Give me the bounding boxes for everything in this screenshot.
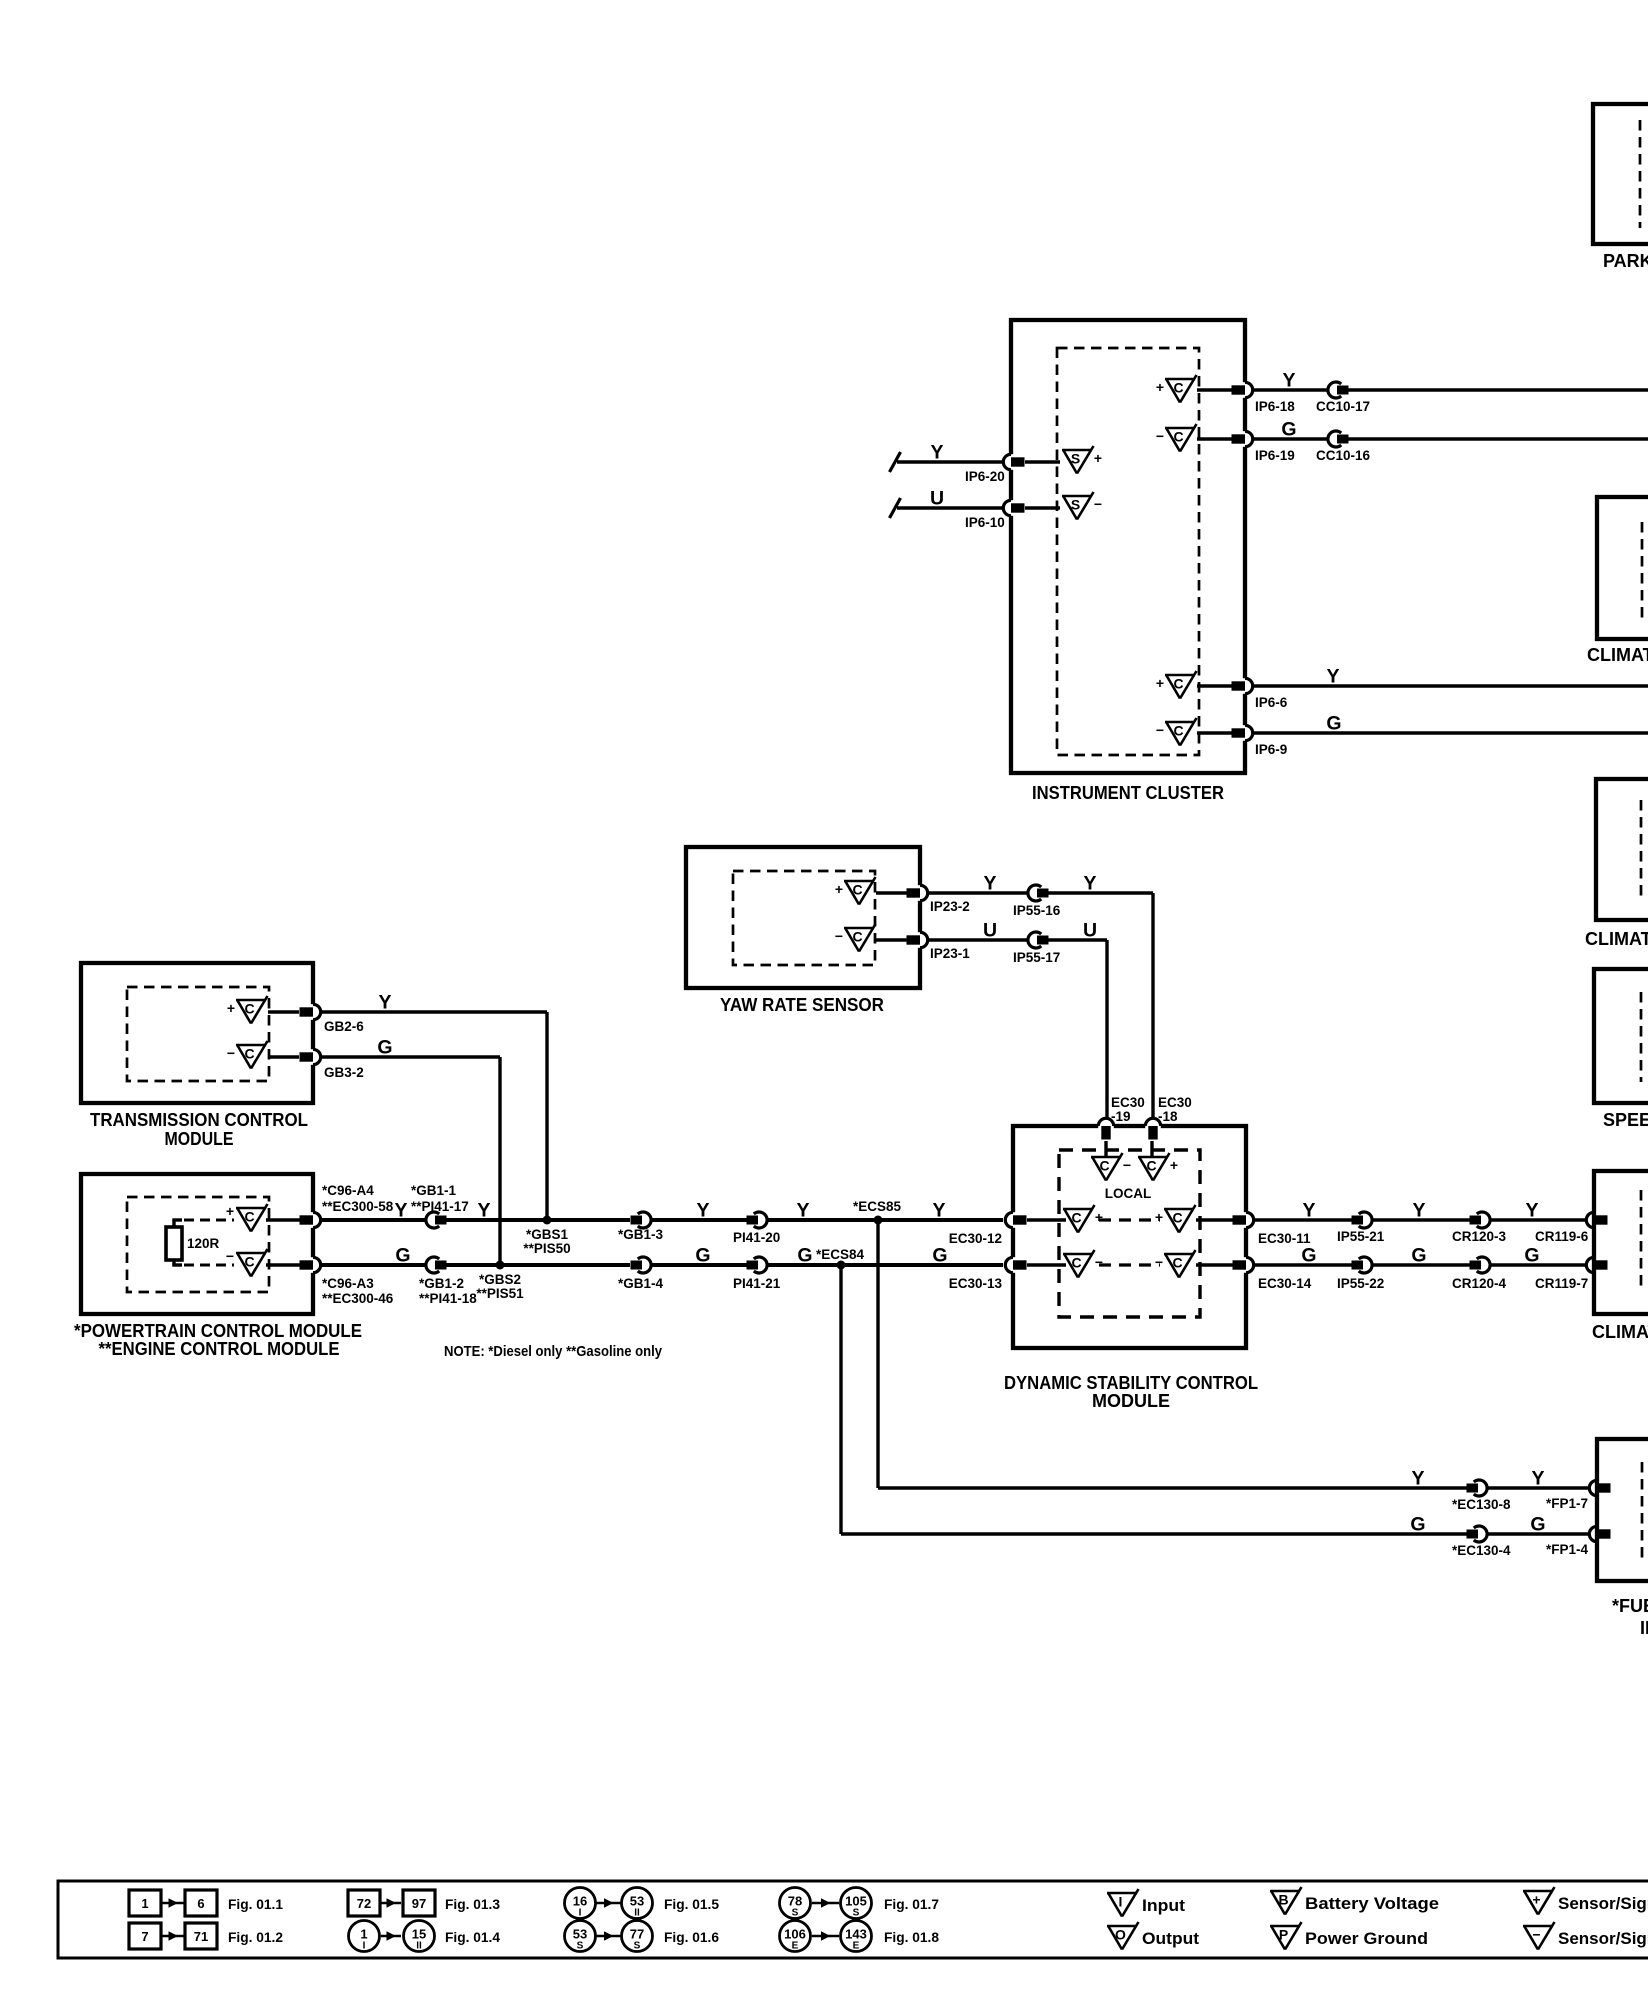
svg-text:G: G xyxy=(797,1245,812,1267)
connector PI41-20 xyxy=(754,1212,767,1228)
svg-text:G: G xyxy=(1411,1245,1426,1267)
svg-text:Y: Y xyxy=(1531,1468,1544,1490)
svg-text:C: C xyxy=(244,1001,254,1017)
svg-text:Y: Y xyxy=(1412,1200,1425,1222)
svg-text:*FUEL PU: *FUEL PU xyxy=(1612,1596,1648,1616)
junction *ECS84 xyxy=(837,1261,846,1270)
svg-text:C: C xyxy=(1071,1255,1081,1271)
svg-text:+: + xyxy=(1170,1157,1178,1173)
pin EC30-12 xyxy=(1010,1212,1015,1228)
connector *GB1-4 xyxy=(638,1257,651,1273)
wire Y from IP55-16 down to EC30-18 xyxy=(1049,891,1154,894)
svg-text:IP55-21: IP55-21 xyxy=(1337,1229,1385,1244)
wire C- triangle to pin IP23-1 xyxy=(876,938,907,941)
svg-text:97: 97 xyxy=(412,1896,426,1911)
connector triangle C- (EC30-14) xyxy=(1164,1253,1194,1256)
svg-text:Y: Y xyxy=(477,1200,490,1222)
legend power ground symbol xyxy=(1270,1925,1300,1928)
svg-text:C: C xyxy=(1173,380,1183,396)
svg-text:U: U xyxy=(983,920,997,942)
wire C+ triangle to pin GB2-6 xyxy=(268,1010,299,1013)
speed module box (clipped right) xyxy=(1594,969,1648,1103)
connector IP55-21 xyxy=(1359,1212,1372,1228)
svg-text:−: − xyxy=(1156,428,1164,444)
svg-text:*GB1-1: *GB1-1 xyxy=(411,1183,457,1198)
svg-text:*GB1-2: *GB1-2 xyxy=(419,1276,464,1291)
climate module box 1 (clipped right) xyxy=(1597,497,1648,639)
wire C- triangle to pin *C96-A3 xyxy=(266,1263,301,1266)
connector triangle C- (IP6-9) xyxy=(1165,721,1195,724)
connector triangle C- (IP23-1) xyxy=(844,927,874,930)
svg-text:C: C xyxy=(1173,723,1183,739)
svg-text:IP6-9: IP6-9 xyxy=(1255,742,1287,757)
svg-text:C: C xyxy=(244,1254,254,1270)
yaw rate sensor inner dashed box xyxy=(733,871,875,965)
svg-text:C: C xyxy=(1071,1210,1081,1226)
wire G CR120-4 to CR119-7 xyxy=(1490,1263,1586,1266)
svg-text:*C96-A4: *C96-A4 xyxy=(322,1183,374,1198)
wire triangle to pin EC30-14 xyxy=(1196,1263,1233,1266)
pin IP6-18 xyxy=(1242,382,1247,398)
wire Y from CC10-17 to right edge xyxy=(1349,388,1648,391)
powertrain/engine control module box xyxy=(81,1174,313,1314)
connector CC10-16 xyxy=(1328,431,1341,447)
svg-text:IP6-20: IP6-20 xyxy=(965,469,1005,484)
junction *GBS1 / **PIS50 xyxy=(543,1216,552,1225)
pin *FP1-7 xyxy=(1594,1480,1599,1496)
svg-text:143: 143 xyxy=(845,1927,867,1942)
svg-text:Fig. 01.2: Fig. 01.2 xyxy=(228,1929,283,1945)
svg-text:G: G xyxy=(1326,713,1341,735)
svg-text:Y: Y xyxy=(796,1200,809,1222)
svg-text:SPEED: SPEED xyxy=(1603,1110,1648,1130)
svg-text:C: C xyxy=(244,1209,254,1225)
pin EC30-14 xyxy=(1243,1257,1248,1273)
legend sensor/signal + symbol xyxy=(1523,1890,1553,1893)
svg-text:−: − xyxy=(227,1045,235,1061)
svg-text:NOTE: *Diesel only **Gasoline: NOTE: *Diesel only **Gasoline only xyxy=(444,1343,663,1360)
wire C- triangle to pin IP6-9 xyxy=(1197,731,1232,734)
svg-text:15: 15 xyxy=(412,1927,426,1942)
wire Y from IP23-2 to IP55-16 xyxy=(928,891,1028,894)
pin IP6-9 xyxy=(1242,725,1247,741)
legend fig 01.5 xyxy=(565,1888,596,1919)
dashed internal link G xyxy=(1099,1263,1160,1266)
svg-text:+: + xyxy=(1095,1209,1103,1225)
svg-text:IP6-19: IP6-19 xyxy=(1255,448,1295,463)
svg-text:CR120-4: CR120-4 xyxy=(1452,1276,1507,1291)
svg-text:IN: IN xyxy=(1640,1618,1648,1638)
connector triangle C- (IP6-19) xyxy=(1165,427,1195,430)
svg-text:72: 72 xyxy=(357,1896,371,1911)
svg-text:C: C xyxy=(244,1046,254,1062)
powertrain control module inner dashed box xyxy=(127,1197,269,1292)
svg-text:II: II xyxy=(416,1941,422,1952)
svg-text:**PIS50: **PIS50 xyxy=(523,1241,570,1256)
svg-text:*GBS2: *GBS2 xyxy=(479,1272,521,1287)
pin IP23-1 xyxy=(917,932,922,948)
legend fig 01.1 xyxy=(129,1890,161,1916)
svg-text:−: − xyxy=(1123,1157,1131,1173)
legend sensor/signal - symbol xyxy=(1523,1925,1553,1928)
connector triangle C+ (IP23-2) xyxy=(844,880,874,883)
svg-text:I: I xyxy=(363,1941,366,1952)
svg-text:C: C xyxy=(1172,1210,1182,1226)
svg-text:CLIMATE: CLIMATE xyxy=(1587,645,1648,665)
wire U from IP55-17 down to EC30-19 xyxy=(1049,938,1108,941)
svg-text:S: S xyxy=(792,1908,799,1919)
svg-text:*ECS84: *ECS84 xyxy=(816,1247,865,1262)
wire Y from IP6-18 to CC10-17 xyxy=(1253,388,1328,391)
connector *EC130-4 xyxy=(1474,1526,1487,1542)
svg-text:S: S xyxy=(577,1941,584,1952)
svg-text:+: + xyxy=(1094,450,1102,466)
connector *GB1-1 / **PI41-17 xyxy=(426,1212,439,1228)
svg-text:*EC130-4: *EC130-4 xyxy=(1452,1543,1511,1558)
svg-text:53: 53 xyxy=(573,1927,587,1942)
svg-text:G: G xyxy=(1524,1245,1539,1267)
svg-text:S: S xyxy=(634,1941,641,1952)
pin EC30-11 xyxy=(1243,1212,1248,1228)
svg-text:Y: Y xyxy=(983,873,996,895)
svg-text:E: E xyxy=(853,1941,860,1952)
connector triangle C+ (GB2-6) xyxy=(236,999,266,1002)
wire G from IP6-19 to CC10-16 xyxy=(1253,437,1328,440)
junction *GBS2 / **PIS51 xyxy=(496,1261,505,1270)
connector *EC130-8 xyxy=(1474,1480,1487,1496)
svg-text:*ECS85: *ECS85 xyxy=(853,1199,902,1214)
svg-text:*C96-A3: *C96-A3 xyxy=(322,1276,374,1291)
wire G IP55-22 to CR120-4 xyxy=(1372,1263,1470,1266)
svg-text:53: 53 xyxy=(630,1894,644,1909)
svg-text:I: I xyxy=(1119,1894,1123,1910)
dashed internal link Y xyxy=(1099,1218,1160,1221)
CAN bus G wire GB1-4 to PI41-21 xyxy=(651,1263,747,1267)
svg-text:MODULE: MODULE xyxy=(1092,1391,1170,1411)
wire Y into IP6-20 xyxy=(897,460,1003,463)
svg-text:1: 1 xyxy=(141,1896,148,1911)
svg-text:PI41-20: PI41-20 xyxy=(733,1230,780,1245)
svg-text:YAW RATE SENSOR: YAW RATE SENSOR xyxy=(720,995,884,1015)
svg-text:B: B xyxy=(1278,1892,1288,1908)
CAN bus G wire PCM to GB1-2 xyxy=(321,1263,426,1267)
connector triangle C- (EC30-13) xyxy=(1063,1253,1093,1256)
svg-text:**PI41-18: **PI41-18 xyxy=(419,1291,477,1306)
svg-text:Input: Input xyxy=(1142,1896,1185,1915)
svg-text:CR119-6: CR119-6 xyxy=(1535,1229,1589,1244)
svg-text:Fig. 01.7: Fig. 01.7 xyxy=(884,1896,939,1912)
svg-text:IP23-2: IP23-2 xyxy=(930,899,970,914)
wire Y *EC130-8 to *FP1-7 xyxy=(1487,1486,1589,1489)
connector *GB1-2 / **PI41-18 xyxy=(426,1257,439,1273)
wire IP6-10 pin to S- triangle xyxy=(1025,506,1060,509)
svg-text:TRANSMISSION CONTROL: TRANSMISSION CONTROL xyxy=(90,1110,308,1130)
svg-text:Y: Y xyxy=(1411,1468,1424,1490)
svg-text:INSTRUMENT CLUSTER: INSTRUMENT CLUSTER xyxy=(1032,783,1224,803)
svg-text:PI41-21: PI41-21 xyxy=(733,1276,781,1291)
svg-text:G: G xyxy=(1301,1245,1316,1267)
svg-text:*POWERTRAIN CONTROL MODULE: *POWERTRAIN CONTROL MODULE xyxy=(74,1321,362,1341)
pin *C96-A4 / **EC300-58 xyxy=(310,1212,315,1228)
wire G from *ECS84 down to *EC130-4 xyxy=(839,1265,842,1534)
legend fig 01.4 xyxy=(349,1921,380,1952)
legend input symbol xyxy=(1107,1892,1137,1895)
svg-text:78: 78 xyxy=(788,1894,802,1909)
wire G from GB3-2 down to junction *GBS2 xyxy=(321,1055,500,1058)
CAN bus Y wire GB1-3 to PI41-20 xyxy=(651,1218,747,1222)
svg-text:71: 71 xyxy=(194,1929,208,1944)
svg-text:EC30-14: EC30-14 xyxy=(1258,1276,1312,1291)
wire Y CR120-3 to CR119-6 xyxy=(1490,1218,1586,1221)
svg-text:7: 7 xyxy=(141,1929,148,1944)
transmission control module box xyxy=(81,963,313,1103)
pin IP6-6 xyxy=(1242,678,1247,694)
svg-text:+: + xyxy=(1155,1209,1163,1225)
svg-text:Fig. 01.4: Fig. 01.4 xyxy=(445,1929,500,1945)
svg-text:−: − xyxy=(835,928,843,944)
dashed internal wire resistor to C- triangle xyxy=(172,1263,182,1266)
svg-text:+: + xyxy=(226,1203,234,1219)
svg-text:C: C xyxy=(1173,676,1183,692)
pin IP6-20 xyxy=(1008,454,1013,470)
legend battery voltage symbol xyxy=(1270,1890,1300,1893)
wire Y from IP6-6 to right edge xyxy=(1253,684,1648,687)
svg-text:G: G xyxy=(377,1037,392,1059)
CAN bus G wire PI41-21 to EC30-13 with junction *ECS84 xyxy=(767,1263,1003,1267)
svg-text:Fig. 01.5: Fig. 01.5 xyxy=(664,1896,719,1912)
wire C+ triangle to pin *C96-A4 xyxy=(266,1218,301,1221)
wire U into IP6-10 xyxy=(897,506,1003,509)
svg-text:U: U xyxy=(1083,920,1097,942)
svg-text:MODULE: MODULE xyxy=(165,1129,234,1149)
svg-text:Sensor/Sign: Sensor/Sign xyxy=(1558,1929,1648,1948)
svg-text:S: S xyxy=(1071,497,1080,513)
connector triangle C- (GB3-2) xyxy=(236,1044,266,1047)
svg-text:G: G xyxy=(695,1245,710,1267)
connector PI41-21 xyxy=(754,1257,767,1273)
CAN bus Y wire PI41-20 to EC30-12 with junction *ECS85 xyxy=(767,1218,1003,1222)
wire U from IP23-1 to IP55-17 xyxy=(928,938,1028,941)
svg-text:Fig. 01.8: Fig. 01.8 xyxy=(884,1929,939,1945)
svg-text:Fig. 01.3: Fig. 01.3 xyxy=(445,1896,500,1912)
svg-text:Y: Y xyxy=(394,1200,407,1222)
legend bar xyxy=(58,1881,1648,1958)
connector IP55-22 xyxy=(1359,1257,1372,1273)
svg-text:Y: Y xyxy=(1282,370,1295,392)
svg-text:G: G xyxy=(1410,1514,1425,1536)
fuel module box (clipped right) xyxy=(1597,1439,1648,1581)
yaw rate sensor module box xyxy=(686,847,920,988)
svg-text:Y: Y xyxy=(696,1200,709,1222)
svg-text:Y: Y xyxy=(932,1200,945,1222)
svg-text:1: 1 xyxy=(360,1927,367,1942)
svg-text:120R: 120R xyxy=(187,1236,220,1251)
svg-text:E: E xyxy=(792,1941,799,1952)
wire Y IP55-21 to CR120-3 xyxy=(1372,1218,1470,1221)
pin *FP1-4 xyxy=(1594,1526,1599,1542)
svg-text:IP55-22: IP55-22 xyxy=(1337,1276,1384,1291)
svg-text:*FP1-7: *FP1-7 xyxy=(1546,1496,1588,1511)
svg-text:U: U xyxy=(930,488,944,510)
connector triangle C+ (EC30-11) xyxy=(1164,1208,1194,1211)
connector CC10-17 xyxy=(1328,382,1341,398)
parking module box (clipped right) xyxy=(1593,104,1648,244)
svg-text:Output: Output xyxy=(1142,1929,1199,1948)
svg-text:S: S xyxy=(1071,451,1080,467)
svg-text:*GB1-4: *GB1-4 xyxy=(618,1276,664,1291)
svg-text:16: 16 xyxy=(573,1894,587,1909)
svg-text:PARKING: PARKING xyxy=(1603,251,1648,271)
pin EC30-19 (top) xyxy=(1098,1123,1114,1128)
wire EC30-12 pin to triangle xyxy=(1027,1218,1066,1221)
resistor 120R xyxy=(172,1220,175,1228)
svg-text:G: G xyxy=(1530,1514,1545,1536)
svg-text:C: C xyxy=(1099,1158,1109,1174)
instrument cluster inner dashed box xyxy=(1057,348,1199,755)
CAN bus Y wire PCM to GB1-1 xyxy=(321,1218,426,1222)
connector IP55-17 xyxy=(1028,932,1041,948)
climate module box 2 (clipped right) xyxy=(1596,779,1648,920)
wire C+ triangle to pin IP23-2 xyxy=(876,891,907,894)
svg-text:Y: Y xyxy=(1525,1200,1538,1222)
svg-text:P: P xyxy=(1279,1927,1288,1943)
wire C- triangle to pin IP6-19 xyxy=(1197,437,1232,440)
svg-text:−: − xyxy=(226,1248,234,1264)
svg-text:−: − xyxy=(1156,722,1164,738)
svg-text:CLIMATE: CLIMATE xyxy=(1592,1322,1648,1342)
svg-text:105: 105 xyxy=(845,1894,867,1909)
svg-text:C: C xyxy=(1173,429,1183,445)
svg-text:**ENGINE CONTROL MODULE: **ENGINE CONTROL MODULE xyxy=(99,1339,340,1359)
svg-text:**PIS51: **PIS51 xyxy=(476,1286,524,1301)
wire C+ triangle to pin IP6-18 xyxy=(1197,388,1232,391)
svg-text:Y: Y xyxy=(930,442,943,464)
legend fig 01.7 xyxy=(780,1888,811,1919)
svg-text:I: I xyxy=(579,1908,582,1919)
svg-text:Y: Y xyxy=(1326,666,1339,688)
svg-text:−: − xyxy=(1094,496,1102,512)
svg-text:C: C xyxy=(1146,1158,1156,1174)
climate module box 3 (clipped right) xyxy=(1594,1171,1648,1314)
connector triangle C+ (IP6-18) xyxy=(1165,378,1195,381)
svg-text:6: 6 xyxy=(197,1896,204,1911)
svg-text:G: G xyxy=(1281,419,1296,441)
connector CR120-4 xyxy=(1477,1257,1490,1273)
svg-text:IP6-6: IP6-6 xyxy=(1255,695,1288,710)
svg-text:Y: Y xyxy=(1083,873,1096,895)
CAN bus G wire GB1-2 to GB1-4 with junction *GBS2 xyxy=(447,1263,631,1267)
pin CR119-6 xyxy=(1591,1212,1596,1228)
svg-text:*FP1-4: *FP1-4 xyxy=(1546,1542,1589,1557)
pin IP23-2 xyxy=(917,885,922,901)
wire C- triangle to pin GB3-2 xyxy=(268,1055,299,1058)
wire Y from *ECS85 down to *EC130-8 xyxy=(876,1220,879,1488)
dynamic stability control module box xyxy=(1013,1126,1246,1348)
wire G from CC10-16 to right edge xyxy=(1349,437,1648,440)
connector triangle C+ (IP6-6) xyxy=(1165,674,1195,677)
svg-text:EC30: EC30 xyxy=(1158,1095,1192,1110)
svg-text:CR120-3: CR120-3 xyxy=(1452,1229,1507,1244)
svg-text:S: S xyxy=(853,1908,860,1919)
pin EC30-18 (top) xyxy=(1145,1123,1161,1128)
svg-text:O: O xyxy=(1115,1927,1126,1943)
connector triangle C+ (EC30-12) xyxy=(1063,1208,1093,1211)
instrument cluster module box xyxy=(1011,320,1245,773)
pin IP6-19 xyxy=(1242,431,1247,447)
transmission control module inner dashed box xyxy=(127,987,269,1081)
legend fig 01.2 xyxy=(129,1923,161,1949)
svg-text:+: + xyxy=(227,1000,235,1016)
svg-text:−: − xyxy=(1532,1927,1540,1943)
svg-text:Y: Y xyxy=(1302,1200,1315,1222)
svg-text:**EC300-46: **EC300-46 xyxy=(322,1291,394,1306)
wire Y from GB2-6 down to junction *GBS1 xyxy=(321,1010,547,1013)
wire G *EC130-4 to *FP1-4 xyxy=(1487,1532,1589,1535)
wire Y EC30-11 to IP55-21 xyxy=(1254,1218,1352,1221)
svg-text:DYNAMIC STABILITY CONTROL: DYNAMIC STABILITY CONTROL xyxy=(1004,1373,1258,1393)
svg-text:**EC300-58: **EC300-58 xyxy=(322,1199,394,1214)
svg-text:G: G xyxy=(932,1245,947,1267)
pin CR119-7 xyxy=(1591,1257,1596,1273)
pin IP6-10 xyxy=(1008,500,1013,516)
connector IP55-16 xyxy=(1028,885,1041,901)
svg-text:Battery Voltage: Battery Voltage xyxy=(1305,1894,1439,1913)
svg-text:LOCAL: LOCAL xyxy=(1105,1186,1152,1201)
connector triangle C- (*C96-A3) xyxy=(236,1252,266,1255)
legend fig 01.6 xyxy=(565,1921,596,1952)
svg-text:+: + xyxy=(1532,1892,1540,1908)
svg-text:77: 77 xyxy=(630,1927,644,1942)
svg-text:IP55-16: IP55-16 xyxy=(1013,903,1061,918)
svg-text:EC30-13: EC30-13 xyxy=(949,1276,1003,1291)
CAN bus Y wire GB1-1 to GB1-3 with junction *GBS1 xyxy=(447,1218,631,1222)
svg-text:Fig. 01.1: Fig. 01.1 xyxy=(228,1896,283,1912)
connector triangle C+ (*C96-A4) xyxy=(236,1207,266,1210)
dashed internal wire resistor to C+ triangle xyxy=(172,1218,182,1221)
svg-text:+: + xyxy=(835,881,843,897)
wire EC30-13 pin to triangle xyxy=(1027,1263,1066,1266)
svg-text:*EC130-8: *EC130-8 xyxy=(1452,1497,1511,1512)
svg-text:*GBS1: *GBS1 xyxy=(526,1227,569,1242)
svg-text:CR119-7: CR119-7 xyxy=(1535,1276,1588,1291)
legend output symbol xyxy=(1107,1925,1137,1928)
svg-text:−: − xyxy=(1155,1254,1163,1270)
svg-text:IP6-10: IP6-10 xyxy=(965,515,1005,530)
wire EC30-19 pin down to local C- triangle xyxy=(1104,1141,1107,1157)
wire G from IP6-9 to right edge xyxy=(1253,731,1648,734)
svg-text:GB3-2: GB3-2 xyxy=(324,1065,364,1080)
sensor triangle S- (IP6-10 input) xyxy=(1062,495,1092,498)
svg-text:CLIMATE: CLIMATE xyxy=(1585,929,1648,949)
svg-text:**PI41-17: **PI41-17 xyxy=(411,1199,469,1214)
svg-text:Power Ground: Power Ground xyxy=(1305,1929,1428,1948)
svg-text:Sensor/Sign: Sensor/Sign xyxy=(1558,1894,1648,1913)
legend fig 01.3 xyxy=(348,1890,380,1916)
svg-text:−: − xyxy=(1095,1254,1103,1270)
svg-text:C: C xyxy=(852,882,862,898)
pin GB2-6 xyxy=(310,1004,315,1020)
svg-text:106: 106 xyxy=(784,1927,806,1942)
svg-text:+: + xyxy=(1156,675,1164,691)
wire triangle to pin EC30-11 xyxy=(1196,1218,1233,1221)
wire G EC30-14 to IP55-22 xyxy=(1254,1263,1352,1266)
svg-text:G: G xyxy=(395,1245,410,1267)
svg-text:GB2-6: GB2-6 xyxy=(324,1019,364,1034)
svg-text:IP23-1: IP23-1 xyxy=(930,946,970,961)
svg-text:C: C xyxy=(852,929,862,945)
svg-text:Fig. 01.6: Fig. 01.6 xyxy=(664,1929,719,1945)
DSC inner dashed box xyxy=(1059,1150,1200,1317)
